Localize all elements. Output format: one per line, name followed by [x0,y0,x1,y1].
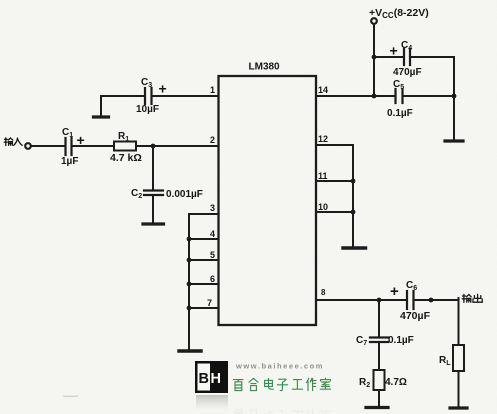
svg-text:3: 3 [210,203,215,213]
faint scan smudge [63,396,78,398]
wire C5 to right rail [404,95,455,97]
wire pin1 right segment to IC [153,95,219,97]
wire C2 to ground [152,196,154,222]
svg-text:+: + [77,132,85,148]
ground (right rail) [445,139,463,142]
作 [306,378,316,390]
svg-text:10µF: 10µF [136,104,159,115]
logo BH (black square) [195,361,228,410]
wire Vcc to C4 [374,56,403,58]
junction pin7 [187,306,192,311]
svg-text:H: H [211,371,221,387]
junction Vcc/pin14 [372,94,377,99]
ground (RL) [450,406,467,409]
wire input to C1 [32,145,65,147]
svg-text:B: B [199,371,209,387]
wire C4 to right rail [411,56,454,58]
百 [233,380,243,391]
ground (R2) [366,406,388,409]
svg-text:+: + [390,43,398,59]
svg-text:8: 8 [321,288,326,297]
resistor R2 body [374,370,385,390]
wire pin3 [189,213,219,215]
svg-text:www.baiheee.com: www.baiheee.com [235,362,324,371]
wire pin14 to Vcc rail [316,95,395,97]
入 [14,138,22,145]
svg-text:5: 5 [210,250,215,260]
svg-text:1: 1 [210,85,215,95]
resistor R1 body [114,142,136,151]
室 [320,378,330,389]
wire C3 left drop [100,96,102,115]
junction pin8 node [377,298,382,303]
junction Vcc/C4 [372,55,377,60]
input terminal circle [25,143,31,149]
wire R1 to pin2 [136,145,219,147]
wire C1 to R1 [73,145,115,147]
junction pin5 [187,258,192,263]
wire pin1 left segment [101,95,144,97]
svg-text:4.7 kΩ: 4.7 kΩ [110,152,142,164]
svg-text:+: + [390,283,399,300]
svg-text:+VCC(8-22V): +VCC(8-22V) [369,7,429,20]
capacitor C4 plates [404,49,410,65]
junction pin6 [187,282,192,287]
wire C7 to R2 [378,343,380,370]
svg-text:0.001µF: 0.001µF [166,189,203,200]
capacitor C6 plates [407,291,414,309]
电 [265,378,274,389]
svg-text:10: 10 [318,202,328,212]
wire pin8 node down to C7 [378,300,380,336]
op-amp U1 LM380 body [219,76,317,325]
wire pin12 [316,144,353,146]
wire C6 to output [415,299,459,301]
svg-text:6: 6 [210,274,215,284]
svg-text:4: 4 [210,229,215,239]
wire right rail vertical [453,57,455,139]
wire pin10 [316,211,353,213]
wire pin8 [316,299,406,301]
wire pin5 [189,259,219,261]
svg-text:0.1µF: 0.1µF [388,335,414,346]
junction right rail / C5 [452,94,457,99]
svg-text:2: 2 [210,135,215,145]
node A junction (R1/C2) [151,144,156,149]
+Vcc terminal circle [371,18,377,24]
capacitor C2 plates [144,191,163,196]
wire pin11 [316,180,353,182]
label 输出 (output) [462,294,482,302]
watermark reflection [233,410,330,414]
输 [4,138,13,146]
capacitor C5 plates [396,89,403,103]
ground (C3) [94,115,109,118]
junction output node [429,298,434,303]
resistor RL body [453,345,464,371]
junction pin4 [187,237,192,242]
capacitor C7 plates [370,338,388,343]
wire pin6 [189,283,219,285]
wire left bus vertical pins3-7 [188,214,190,349]
capacitor C3 plates [145,88,152,104]
junction pin10 [351,210,356,215]
输 [462,294,471,302]
wire node A down to C2 [152,146,154,189]
svg-text:11: 11 [318,171,328,181]
wire pin7 [189,307,219,309]
合 [249,378,258,390]
svg-text:12: 12 [318,134,328,144]
svg-text:4.7Ω: 4.7Ω [385,377,407,388]
wire output down to RL [458,298,460,345]
label 输入 (input) [4,138,22,146]
wire R2 to ground [378,390,380,406]
svg-text:LM380: LM380 [249,62,281,73]
CJK labels drawn as strokes [4,138,482,303]
wire RL to ground [458,371,460,406]
ground (right bus) [343,246,366,249]
capacitor C1 plates [66,138,72,155]
svg-text:470µF: 470µF [400,310,431,322]
svg-text:14: 14 [318,85,328,95]
出 [473,294,482,302]
工 [292,380,302,390]
svg-text:7: 7 [207,298,212,308]
watermark 百合电子工作室 (green) [233,378,330,390]
svg-text:470µF: 470µF [393,67,422,78]
子 [277,379,287,390]
ground (C2) [143,222,164,225]
wire right bus vertical [352,145,354,246]
ground (left bus) [179,349,201,352]
wire pin4 [189,238,219,240]
junction pin11 [351,179,356,184]
svg-text:+: + [159,81,167,97]
svg-text:0.1µF: 0.1µF [387,108,413,119]
wire Vcc vertical [373,25,375,96]
svg-text:1µF: 1µF [61,156,78,167]
